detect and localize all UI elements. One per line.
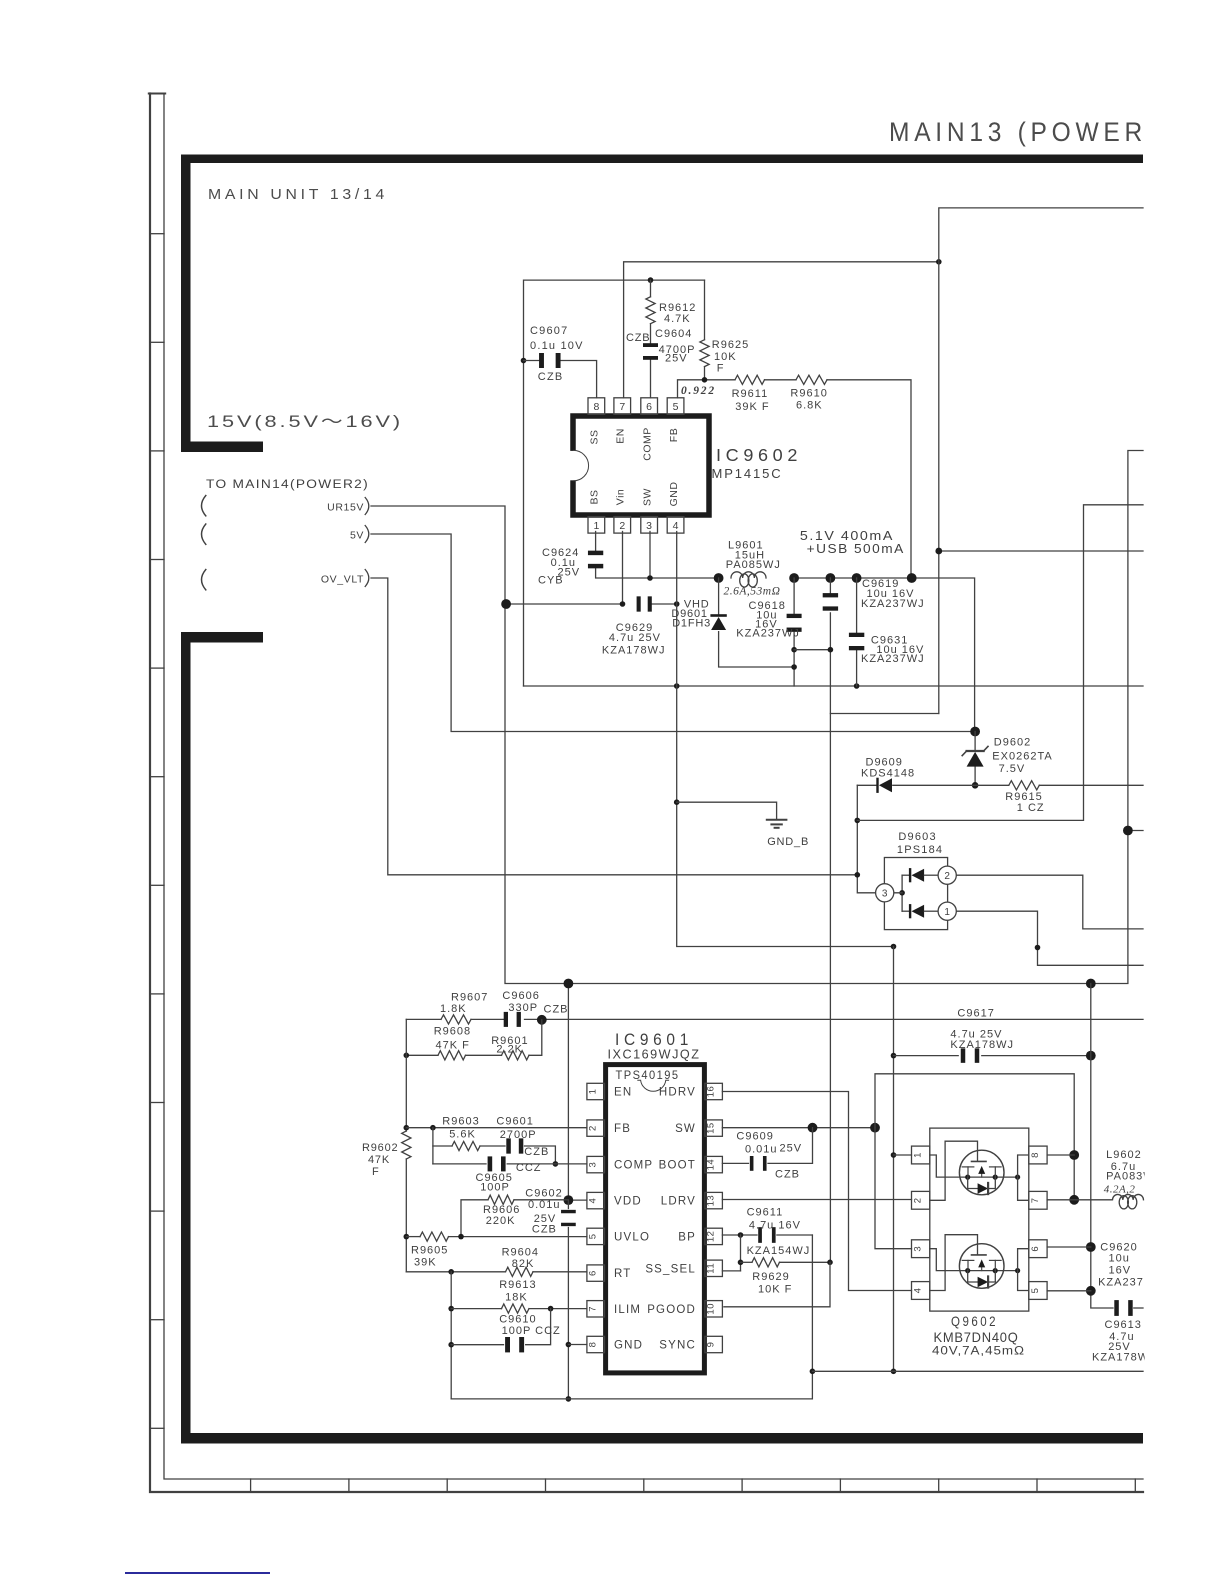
junction VDD node xyxy=(564,1195,574,1205)
capacitor C9617 4.7u 25V KZA178WJ xyxy=(961,1048,966,1063)
svg-text:R9603: R9603 xyxy=(442,1116,479,1128)
resistor R9610 6.8K xyxy=(796,375,827,384)
D9603 internal common node xyxy=(901,875,903,911)
svg-text:0.1u 10V: 0.1u 10V xyxy=(530,340,584,352)
wire D9603 pin2 to right edge xyxy=(956,875,1143,929)
capacitor C9618 10u 16V KZA237WJ xyxy=(787,614,802,618)
Q9602 pin 7 box xyxy=(1029,1191,1047,1209)
wire FB row of IC9601 xyxy=(406,1127,587,1129)
svg-text:C9617: C9617 xyxy=(957,1008,994,1020)
svg-text:SYNC: SYNC xyxy=(659,1340,696,1352)
IC9601 TPS40195 body xyxy=(606,1065,705,1373)
junction C9617 right / UR15V column xyxy=(1086,1051,1096,1061)
junction D9601 node on SW bus xyxy=(714,573,724,583)
svg-text:TO MAIN14(POWER2): TO MAIN14(POWER2) xyxy=(206,479,369,491)
wire C9619 column down to PGOOD node xyxy=(829,578,831,595)
svg-text:OV_VLT: OV_VLT xyxy=(321,574,364,586)
svg-text:+USB 500mA: +USB 500mA xyxy=(807,541,905,556)
Q9602 FET contacts xyxy=(967,1260,969,1270)
wire C9618 column xyxy=(793,578,795,613)
Q9602 FET body diode xyxy=(968,1177,978,1188)
svg-text:220K: 220K xyxy=(486,1215,516,1227)
Q9602 FET drain lead xyxy=(1018,1249,1029,1271)
svg-text:D9603: D9603 xyxy=(898,831,936,843)
svg-text:GND: GND xyxy=(614,1340,643,1352)
IC9601 pin 7 box xyxy=(587,1301,605,1317)
wire UR15V from connector to Vin rail and right edge xyxy=(371,506,1091,984)
svg-text:KZA178W: KZA178W xyxy=(1092,1352,1149,1364)
svg-text:2700P: 2700P xyxy=(500,1129,537,1141)
wire stub +USB to right edge at y551 xyxy=(939,550,1143,552)
wire stub UR15V to right edge at y830 xyxy=(1128,830,1143,832)
svg-text:VDD: VDD xyxy=(614,1196,642,1208)
svg-text:6.8K: 6.8K xyxy=(796,400,823,412)
page crop at right edge xyxy=(1145,0,1224,1584)
wire D9601 cathode lead xyxy=(718,578,720,614)
sheet border outer rule xyxy=(150,94,1143,1493)
junction GND leg / bottom bus xyxy=(891,1369,897,1375)
connector parenthesis for 5V xyxy=(202,524,206,544)
IC9602 pin 1 box xyxy=(588,517,605,534)
junction C9618 bottom xyxy=(791,647,797,653)
wire SW row of IC9601 xyxy=(722,1127,875,1129)
capacitor C9613 4.7u 25V KZA178WJ xyxy=(1114,1300,1119,1316)
junction C9602 leg / IC9601 GND row xyxy=(566,1342,572,1348)
wire bottom rail under IC9601 xyxy=(451,1235,812,1399)
junction C9607 left on GND riser xyxy=(521,358,527,364)
svg-text:39K: 39K xyxy=(414,1257,437,1269)
IC9601 pin 6 box xyxy=(587,1265,605,1281)
junction output bus at C9619 xyxy=(826,573,836,583)
svg-text:25V: 25V xyxy=(665,353,688,365)
wire C9602 bottom leg down to bottom rail xyxy=(567,1200,569,1208)
svg-text:BOOT: BOOT xyxy=(659,1160,696,1172)
svg-text:2.2K: 2.2K xyxy=(496,1044,523,1056)
diode D9601 D1FH3 VHD xyxy=(710,614,726,617)
wire R9601 branch from C9606 junction xyxy=(529,1020,542,1056)
svg-text:HDRV: HDRV xyxy=(659,1087,696,1099)
svg-text:CZB: CZB xyxy=(532,1224,557,1236)
resistor R9613 18K xyxy=(502,1304,529,1313)
svg-text:SW: SW xyxy=(642,488,654,506)
svg-text:F: F xyxy=(372,1166,380,1178)
resistor R9611 39K F xyxy=(735,375,765,384)
junction UVLO row / R9606 branch xyxy=(458,1234,464,1240)
resistor R9606 220K xyxy=(488,1195,514,1204)
D9603 lower diode xyxy=(902,910,909,912)
svg-text:1: 1 xyxy=(944,907,950,918)
wire R9629 row xyxy=(741,1261,753,1263)
left ruler tick marks xyxy=(150,233,164,235)
junction C9619 bottom xyxy=(828,647,834,653)
junction BP row / R9629 column xyxy=(738,1232,744,1238)
wire HDRV row of IC9601 to Q9602 pin4 xyxy=(722,1092,911,1291)
junction GND bus / pin4 riser xyxy=(674,683,680,689)
svg-text:CCZ: CCZ xyxy=(516,1162,542,1174)
junction RT row / x451 column xyxy=(448,1269,454,1275)
svg-text:IC9601: IC9601 xyxy=(615,1031,693,1049)
junction C9618 / D9601 anode row xyxy=(791,664,797,670)
svg-text:4.2A,2: 4.2A,2 xyxy=(1104,1184,1136,1196)
Q9602 FET channel xyxy=(968,1270,1018,1272)
wire zener D9602 leads xyxy=(974,732,976,751)
Q9602 FET gate lead xyxy=(930,1235,978,1291)
D9603 pin 3 circle xyxy=(876,884,894,902)
wire GND bus to right edge under Q9602 xyxy=(812,1370,1143,1372)
junction GND riser / GND_B branch xyxy=(674,799,680,805)
svg-text:3: 3 xyxy=(588,1162,599,1168)
wire ILIM row of IC9601 with R9613 xyxy=(451,1308,501,1310)
svg-text:LDRV: LDRV xyxy=(661,1196,696,1208)
wire D9603 pin1 to right edge xyxy=(956,911,1143,965)
svg-text:FB: FB xyxy=(614,1123,631,1135)
svg-text:12: 12 xyxy=(706,1231,717,1243)
connector parenthesis for OV_VLT xyxy=(202,570,206,590)
svg-text:6: 6 xyxy=(1030,1246,1041,1252)
IC9601 pin 13 box xyxy=(705,1192,723,1208)
resistor R9607 1.8K xyxy=(441,1015,471,1024)
IC9602 pin 6 box xyxy=(641,398,658,415)
svg-text:R9613: R9613 xyxy=(499,1279,536,1291)
svg-text:KZA237WJ: KZA237WJ xyxy=(736,628,800,640)
wire IC9602 pin8 SS to C9607 xyxy=(559,361,597,398)
bottom ruler tick marks xyxy=(250,1479,252,1492)
svg-text:1: 1 xyxy=(593,520,599,532)
wire BOOT row with C9609 xyxy=(722,1162,748,1164)
svg-text:KZA154WJ: KZA154WJ xyxy=(747,1245,811,1257)
svg-text:2: 2 xyxy=(913,1197,924,1203)
wire PGOOD row of IC9601 xyxy=(724,1262,830,1307)
wire left column x406 (R9607 corner to RT row) with R9602 inline xyxy=(405,1019,407,1131)
svg-text:7: 7 xyxy=(1030,1197,1041,1203)
resistor R9625 10K F xyxy=(700,340,709,367)
svg-text:C9610: C9610 xyxy=(499,1314,536,1326)
IC9602 pin 4 box xyxy=(667,517,684,534)
svg-text:KMB7DN40Q: KMB7DN40Q xyxy=(934,1329,1019,1345)
junction GND leg / C9617 xyxy=(891,1053,897,1059)
wire link y820 to right edge via x1083 xyxy=(857,505,1143,821)
wire UR15V column down to Q9602 pins 6 and 5 then C9613 xyxy=(1091,984,1113,1309)
schematic frame bottom bar xyxy=(181,1433,1143,1444)
wire GND bus under IC9602 to right edge xyxy=(524,685,1144,687)
svg-text:Vin: Vin xyxy=(615,489,627,506)
junction D9602 anode / R9615 row xyxy=(972,782,979,789)
junction SW row / over-the-top riser xyxy=(870,1123,880,1133)
wire SW over-the-top to Q9602 pins 8/7 xyxy=(875,1074,1074,1200)
junction EN wire / right column xyxy=(936,259,942,265)
wire D9601 anode to C9618 bottom xyxy=(719,632,795,667)
svg-text:13: 13 xyxy=(706,1195,717,1207)
junction x406 / FB row xyxy=(404,1125,410,1131)
IC9601 pin 9 box xyxy=(705,1336,723,1352)
svg-text:330P: 330P xyxy=(508,1002,538,1014)
junction R9629 left xyxy=(738,1260,744,1266)
wire C9611 right to GND leg xyxy=(777,1234,813,1236)
wire Q9602 pin5 lead xyxy=(1047,1290,1091,1292)
svg-text:2: 2 xyxy=(588,1125,599,1131)
svg-text:CYB: CYB xyxy=(538,575,564,587)
junction x451 / ILIM row xyxy=(448,1306,454,1312)
wire VDD feed down to IC9601 pin4 xyxy=(567,984,569,1201)
capacitor C9605 100P CCZ xyxy=(488,1156,493,1171)
svg-text:4.7u 25V: 4.7u 25V xyxy=(609,632,661,644)
junction C9629 / GND riser xyxy=(674,601,680,607)
svg-text:CZB: CZB xyxy=(544,1004,569,1016)
sheet border inner rule xyxy=(164,94,1143,1480)
sheet border top cap xyxy=(149,93,165,95)
junction D9609 riser / y820 link xyxy=(855,818,861,824)
svg-text:IC9602: IC9602 xyxy=(716,445,802,465)
inductor L9601 15uH PA085WJ xyxy=(731,572,766,578)
svg-text:11: 11 xyxy=(706,1263,717,1274)
svg-text:KZA178WJ: KZA178WJ xyxy=(602,645,666,657)
svg-text:L9602: L9602 xyxy=(1106,1149,1142,1161)
svg-text:R9629: R9629 xyxy=(752,1271,789,1283)
svg-text:1 CZ: 1 CZ xyxy=(1017,802,1045,814)
wire EN of IC9602 up and over to right column xyxy=(624,262,939,398)
svg-text:18K: 18K xyxy=(505,1292,528,1304)
svg-text:4: 4 xyxy=(588,1198,599,1204)
svg-text:9: 9 xyxy=(706,1342,717,1348)
wire SW bus of IC9602 xyxy=(596,568,719,578)
svg-text:7.5V: 7.5V xyxy=(999,763,1026,775)
wire IC9601 GND pin8 row xyxy=(568,1344,587,1346)
junction UR15V vertical / Vin branch xyxy=(501,599,511,609)
svg-text:0.01u: 0.01u xyxy=(745,1144,778,1156)
svg-text:IXC169WJQZ: IXC169WJQZ xyxy=(608,1048,701,1062)
IC9601 pin 2 box xyxy=(587,1120,605,1136)
svg-text:7: 7 xyxy=(619,401,625,413)
Q9602 FET gate lead xyxy=(930,1141,978,1200)
svg-text:5V: 5V xyxy=(350,530,364,542)
svg-text:MAIN13 (POWER: MAIN13 (POWER xyxy=(889,117,1147,147)
resistor R9605 39K xyxy=(420,1232,449,1241)
capacitor C9624 0.1u 25V CYB xyxy=(588,551,603,556)
junction UR15V column / Q9602 pin6 xyxy=(1086,1242,1096,1252)
svg-text:COMP: COMP xyxy=(642,427,654,461)
svg-text:5: 5 xyxy=(1030,1288,1041,1294)
junction GND leg / Q9602 pin1 xyxy=(891,1152,897,1158)
svg-text:3: 3 xyxy=(646,520,652,532)
Q9602 pin 4 box xyxy=(912,1282,930,1300)
wire C9631 column xyxy=(856,578,858,633)
wire right column x939 with top stub to edge xyxy=(939,208,1143,714)
IC9602 pin 7 box xyxy=(614,398,631,415)
D9603 upper diode xyxy=(902,874,909,876)
junction 5.1V / 5V wire / D9602 xyxy=(970,727,980,737)
svg-text:MAIN UNIT 13/14: MAIN UNIT 13/14 xyxy=(208,187,388,203)
svg-text:6: 6 xyxy=(588,1270,599,1276)
IC9601 pin 16 box xyxy=(705,1083,723,1099)
dual diode D9603 1PS184 package xyxy=(884,858,947,930)
capacitor C9631 10u 16V KZA237WJ xyxy=(849,633,864,637)
svg-text:8: 8 xyxy=(593,401,599,413)
junction compensation / COMP row xyxy=(553,1161,559,1167)
svg-text:C9613: C9613 xyxy=(1105,1319,1142,1331)
capacitor C9619 10u 16V KZA237WJ xyxy=(823,593,838,597)
capacitor C9609 0.01u 25V CZB xyxy=(750,1156,754,1171)
IC9601 pin 15 box xyxy=(705,1120,723,1136)
svg-text:SS_SEL: SS_SEL xyxy=(645,1263,696,1275)
junction UR15V rail at C9617 column xyxy=(1086,979,1096,989)
wire COMP row of IC9601 with C9605 xyxy=(433,1163,486,1165)
Q9602 FET substrate arrow xyxy=(981,1169,983,1177)
wire UVLO row of IC9601 with R9605 xyxy=(406,1236,420,1238)
svg-text:GND_B: GND_B xyxy=(767,836,809,848)
junction VDD feed top xyxy=(564,979,574,989)
IC9602 pin 8 box xyxy=(588,398,605,415)
resistor R9601 2.2K xyxy=(502,1051,529,1060)
svg-text:14: 14 xyxy=(706,1159,717,1171)
wire OV_VLT from connector to D9603 common xyxy=(371,578,857,875)
svg-text:47K F: 47K F xyxy=(436,1040,470,1052)
junction ILIM row / C9610 right riser xyxy=(548,1306,554,1312)
svg-text:7: 7 xyxy=(588,1306,599,1312)
capacitor C9629 4.7u 25V KZA178WJ xyxy=(637,596,641,611)
IC9602 pin 3 box xyxy=(641,517,658,534)
ground symbol GND_B xyxy=(677,802,777,819)
Q9602 FET circle xyxy=(959,1150,1004,1195)
svg-text:C9604: C9604 xyxy=(655,328,692,340)
svg-text:1: 1 xyxy=(913,1152,924,1158)
resistor R9629 10K F xyxy=(752,1258,779,1267)
svg-text:100P CCZ: 100P CCZ xyxy=(502,1325,561,1337)
IC9601 pin 12 box xyxy=(705,1228,723,1244)
Q9602 pin 1 box xyxy=(912,1146,930,1164)
capacitor C9602 0.01u 25V CZB xyxy=(561,1210,576,1213)
svg-text:R9605: R9605 xyxy=(411,1245,448,1257)
wire UR15V branch to IC9602 Vin row xyxy=(505,603,623,605)
junction output bus at R9610 feedback column xyxy=(907,573,917,583)
Q9602 FET circle xyxy=(959,1244,1004,1289)
wire C9607 left lead xyxy=(524,360,542,362)
svg-text:82K: 82K xyxy=(512,1258,535,1270)
wire x451 column down to bottom rail xyxy=(450,1272,452,1399)
IC9601 notch xyxy=(638,1080,669,1091)
svg-text:10u: 10u xyxy=(1109,1253,1130,1265)
IC9601 pin 4 box xyxy=(587,1192,605,1208)
svg-text:CZB: CZB xyxy=(775,1169,800,1181)
svg-text:5: 5 xyxy=(673,401,679,413)
wire link C9618 bottom to C9619 bottom xyxy=(794,649,830,651)
schematic frame upper-left bar with stub xyxy=(181,155,191,453)
svg-text:5: 5 xyxy=(588,1234,599,1240)
svg-text:R9610: R9610 xyxy=(790,388,827,400)
svg-text:BS: BS xyxy=(589,489,601,504)
Q9602 pin 5 box xyxy=(1029,1282,1047,1300)
IC9602 pin 2 box xyxy=(614,517,631,534)
resistor R9612 4.7K xyxy=(646,297,655,324)
wire R9625 to FB row xyxy=(704,367,706,380)
junction C9602 leg / bottom rail xyxy=(566,1396,572,1402)
svg-text:D1FH3: D1FH3 xyxy=(672,618,711,630)
svg-text:C9602: C9602 xyxy=(525,1188,562,1200)
IC9601 pin 3 box xyxy=(587,1156,605,1172)
svg-text:EX0262TA: EX0262TA xyxy=(992,751,1052,763)
wire compensation top rail (GND) above IC9602 xyxy=(524,280,705,686)
resistor R9602 47K F xyxy=(402,1131,411,1159)
svg-text:F: F xyxy=(717,363,725,375)
svg-text:3: 3 xyxy=(913,1246,924,1252)
capacitor C9604 4700P 25V CZB xyxy=(643,343,658,347)
svg-text:SW: SW xyxy=(675,1123,696,1135)
svg-text:Q9602: Q9602 xyxy=(951,1313,998,1329)
junction SW row / BOOT riser xyxy=(808,1123,818,1133)
svg-text:5.6K: 5.6K xyxy=(449,1129,476,1141)
svg-text:0.01u: 0.01u xyxy=(528,1199,561,1211)
wire IC9602 pin4 GND riser down to GND_B branch and D9603 leg xyxy=(677,532,894,947)
IC9601 pin 14 box xyxy=(705,1156,723,1172)
Q9602 FET source lead xyxy=(930,1249,968,1271)
IC9602 notch xyxy=(570,451,576,480)
Q9602 FET source lead xyxy=(930,1155,968,1177)
svg-text:47K: 47K xyxy=(368,1154,390,1166)
wire FB row of IC9602 through R9611 R9610 to output xyxy=(678,380,736,398)
svg-text:3: 3 xyxy=(882,889,888,900)
svg-text:KZA237WJ: KZA237WJ xyxy=(861,653,925,665)
svg-text:10: 10 xyxy=(706,1303,717,1315)
diode D9609 KDS4148 xyxy=(876,778,878,793)
svg-text:MP1415C: MP1415C xyxy=(712,467,783,481)
wire output bus 5.1V after L9601 xyxy=(794,578,975,732)
wire elbow C9619 bottom to x939 column xyxy=(830,713,938,715)
svg-text:PA085WJ: PA085WJ xyxy=(726,559,781,571)
junction x939 column y551 xyxy=(935,548,942,555)
svg-text:2: 2 xyxy=(619,520,625,532)
inductor L9602 6.7u PA083WJ xyxy=(1113,1194,1144,1199)
svg-text:2: 2 xyxy=(944,871,950,882)
wire GND leg down left of Q9602 xyxy=(893,947,895,1372)
IC9601 pin 5 box xyxy=(587,1228,605,1244)
svg-text:15V(8.5V〜16V): 15V(8.5V〜16V) xyxy=(207,413,403,431)
wire 5V from connector to 5.1V rail xyxy=(371,534,975,732)
svg-text:R9608: R9608 xyxy=(434,1026,471,1038)
schematic frame top bar xyxy=(181,155,1143,164)
svg-text:10K: 10K xyxy=(714,351,737,363)
wire R9607/C9606 rail to right edge xyxy=(406,1018,441,1020)
svg-text:4: 4 xyxy=(913,1288,924,1294)
D9603 pin 1 circle xyxy=(938,902,956,920)
wire Q9602 pin3 lead from SW riser xyxy=(875,1128,912,1249)
wire Q9602 pin7 lead to L9602 xyxy=(1047,1199,1074,1201)
Q9602 FET drain lead xyxy=(1018,1155,1029,1177)
svg-text:EN: EN xyxy=(615,428,627,444)
junction bottom rail / GND bus 2 xyxy=(810,1369,816,1375)
resistor R9615 1 CZ xyxy=(1009,781,1039,790)
wire VDD row of IC9601 xyxy=(568,1199,587,1201)
IC9602 pin 5 box xyxy=(667,398,684,415)
capacitor C9611 4.7u 16V KZA154WJ xyxy=(758,1227,762,1243)
svg-text:EN: EN xyxy=(614,1087,632,1099)
svg-text:ILIM: ILIM xyxy=(614,1304,641,1316)
junction FB row / R9625 xyxy=(702,377,708,383)
svg-text:KZA237: KZA237 xyxy=(1098,1277,1144,1289)
junction C9606 right / long rail xyxy=(537,1015,547,1025)
wire IC9601 pin11 SS_SEL lead xyxy=(722,1270,740,1272)
svg-text:RT: RT xyxy=(614,1268,632,1280)
svg-text:C9601: C9601 xyxy=(496,1116,533,1128)
wire Q9602 pin6 lead xyxy=(1047,1246,1091,1248)
capacitor C9610 100P CCZ xyxy=(505,1337,510,1352)
svg-text:R9602: R9602 xyxy=(362,1142,398,1154)
capacitor C9606 330P CZB xyxy=(504,1012,508,1027)
svg-text:SS: SS xyxy=(589,429,601,444)
svg-text:8: 8 xyxy=(588,1342,599,1348)
svg-text:CZB: CZB xyxy=(626,332,650,344)
IC9601 pin 10 box xyxy=(705,1301,723,1317)
junction Q9602 pin7 / L9602 xyxy=(1069,1195,1079,1205)
svg-text:D9602: D9602 xyxy=(994,737,1031,749)
